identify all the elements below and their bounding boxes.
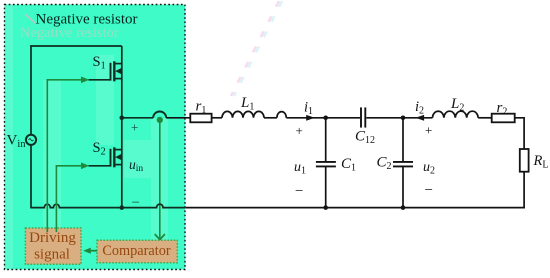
wire: node to sensor, main rail inside panel [122,117,153,119]
green arrow comparator to driving signal [90,250,97,252]
resistor r2 [492,114,515,123]
node: S1/S2 midpoint junction [120,116,125,121]
svg-text:signal: signal [34,246,70,262]
ghost dashed annotation line [231,1,282,96]
wire: Vin bottom vertical [30,145,32,209]
svg-text:−: − [132,195,140,211]
current arrow i1 [306,115,315,121]
resistor RL [520,149,529,172]
node above C1 [323,116,328,121]
comparator box [97,240,177,263]
transistor S1 [111,46,123,118]
wire with hop after L1 [264,117,277,119]
driving signal box [25,228,81,264]
svg-text:Driving: Driving [29,230,76,246]
capacitor C2 branch [402,118,404,162]
svg-text:−: − [425,183,433,199]
wire r1 to L1 [212,117,222,119]
inductor L2 [433,111,479,118]
svg-text:+: + [131,120,138,135]
resistor r1 [190,114,211,123]
current arrow i2 (pointing left) [416,115,425,121]
gate lead S1 [89,79,111,81]
negative resistor panel (dotted box, green fill) [5,5,186,270]
wire r2 to right corner, down to RL [515,118,524,149]
wire node to L2 with i2 arrow [403,117,433,119]
green gate drive line 1 (to S1) [47,80,81,232]
ghost light bands (faint duplicate artifacts) [5,5,168,269]
gate lead S2 [89,165,111,167]
node: S2 source on bottom rail [120,205,125,210]
green gate drive line 2 (to S2) [56,166,81,232]
node above C2 [401,116,406,121]
capacitor C1 branch [325,118,327,162]
capacitor C12 [360,107,362,127]
wire node to C12 [326,117,360,119]
wire L2 to r2 [478,117,492,119]
node: C2 bottom [401,205,406,210]
green sense wire down to comparator [159,122,161,239]
bottom rail with hops [31,204,186,208]
ghost diagonal mark [25,14,35,23]
inductor L1 [222,111,264,117]
svg-text:+: + [296,123,303,138]
svg-text:+: + [425,123,432,138]
wire: top horizontal y=46 [30,45,122,47]
node: C1 bottom [323,205,328,210]
sensor green dot [157,117,163,123]
svg-text:Comparator: Comparator [102,243,171,259]
svg-text:Negative resistor: Negative resistor [36,12,138,28]
source Vin circle [26,135,36,145]
svg-text:−: − [295,184,303,200]
current sensor hop arc [153,112,166,118]
transistor S2 [111,118,123,208]
wire C12 to node [366,117,403,119]
wire: Vin loop top vertical (x=31, y 46..135) [30,45,122,208]
wire RL down to bottom rail [523,172,525,209]
